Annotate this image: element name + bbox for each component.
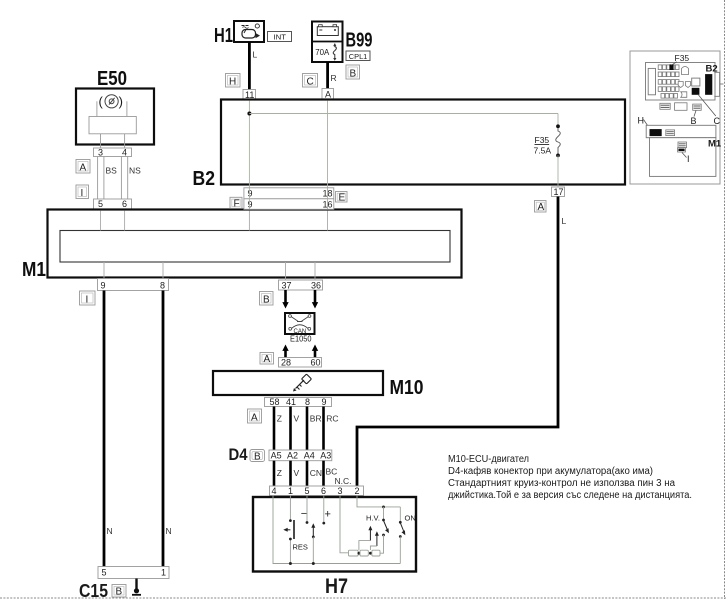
svg-text:A: A (538, 202, 545, 213)
svg-text:A: A (325, 90, 331, 100)
svg-text:6: 6 (321, 486, 326, 496)
body computer M1 box (48, 210, 462, 278)
inset F35 label (671, 53, 689, 65)
inset M1 label (708, 139, 722, 150)
svg-text:Стандартният круиз-контрол не: Стандартният круиз-контрол не използва п… (448, 478, 675, 489)
svg-text:V: V (294, 468, 300, 478)
H7 set plus contact from pin 6 (322, 496, 331, 525)
svg-text:RES: RES (293, 543, 308, 552)
svg-text:3: 3 (338, 486, 343, 496)
connector letter box I (M1) (80, 291, 96, 306)
svg-text:B: B (691, 116, 697, 126)
svg-text:8: 8 (160, 281, 165, 291)
B99 fuse 70A (315, 43, 336, 61)
svg-text:B2: B2 (193, 168, 216, 190)
cruise control lamp H1 body (234, 21, 264, 42)
svg-text:5: 5 (102, 568, 107, 578)
inset label C (699, 95, 721, 126)
wire B2 pin18 to M1 pin16 (327, 188, 329, 210)
engine ECU M10 box (213, 371, 383, 395)
svg-text:D4: D4 (229, 445, 248, 464)
cruise control switch H7 box (253, 497, 416, 572)
svg-text:BC: BC (326, 467, 338, 477)
svg-text:F: F (234, 198, 240, 209)
svg-text:C: C (307, 77, 314, 88)
svg-text:N: N (107, 526, 113, 536)
svg-text:5: 5 (305, 486, 310, 496)
fuse F35 7.5A (534, 124, 561, 157)
svg-text:B2: B2 (706, 64, 718, 75)
wire CN D4 to H7 pin5 (307, 461, 322, 486)
inset fuse panel left module (648, 68, 655, 94)
svg-text:RC: RC (326, 414, 338, 424)
svg-text:L: L (562, 216, 567, 226)
H7 internal left rail from pin 4 (273, 496, 400, 564)
instrument cluster B2 label (193, 168, 216, 190)
battery B99 body (312, 22, 343, 63)
wire V M10 pin41 to D4 A2 (291, 407, 300, 451)
B99 battery icon (317, 25, 338, 36)
H7 RES switch from pin 1 (283, 496, 308, 566)
svg-text:CN: CN (310, 468, 322, 478)
svg-text:A: A (251, 413, 258, 424)
M10 key icon (293, 374, 311, 391)
N.C. label pin 3 (335, 476, 352, 486)
B2 pin A (322, 89, 334, 100)
inset label I (682, 153, 690, 165)
connector letter box F (230, 197, 242, 209)
connector D4 label (229, 445, 248, 464)
connector letter box H (226, 74, 241, 88)
svg-text:E: E (339, 192, 346, 203)
B2 internal wire fuse to pin 17 (557, 155, 559, 187)
B2 bottom pin row pins 9 18 (244, 188, 334, 199)
B2 internal wire from pin A (327, 101, 329, 188)
svg-text:R: R (331, 73, 337, 83)
cruise control switch H7 label (325, 575, 348, 598)
svg-text:4: 4 (272, 486, 277, 496)
svg-text:1: 1 (288, 486, 293, 496)
svg-text:B99: B99 (346, 30, 373, 52)
CAN wire arrow to M10 pin 60 (312, 345, 318, 359)
inset connector B2 black box (705, 74, 712, 95)
wire Z D4 to H7 pin4 (274, 461, 282, 486)
inset fuse grid (658, 65, 679, 98)
svg-text:A5: A5 (271, 451, 282, 461)
wire N from M1 pin 9 to C15 pin 5 (104, 291, 113, 567)
svg-text:41: 41 (286, 397, 296, 407)
svg-text:9: 9 (248, 200, 253, 210)
svg-text:A4: A4 (304, 451, 315, 461)
svg-text:M1: M1 (22, 259, 46, 281)
connector letter box B (B99) (346, 65, 360, 80)
svg-text:1: 1 (161, 568, 166, 578)
clutch switch E50 label (97, 68, 127, 90)
M10 top pin row pins 28 60 (279, 358, 322, 368)
svg-text:B: B (350, 69, 357, 80)
inset fuse F35 highlighted (669, 64, 673, 70)
M1 pin row pins 5 6 (94, 199, 132, 209)
inset lower connectors row (660, 103, 701, 111)
svg-text:L: L (253, 50, 258, 60)
svg-text:BR: BR (310, 414, 322, 424)
page border bottom edge (0, 597, 726, 599)
CPL1 function box (346, 51, 370, 61)
cruise control lamp H1 label (214, 25, 233, 47)
svg-text:B: B (116, 587, 123, 598)
svg-text:N: N (166, 526, 172, 536)
svg-text:A: A (80, 163, 87, 174)
E50 pin row pins 3 4 (94, 147, 132, 157)
svg-text:C: C (714, 116, 721, 126)
wire Z M10 pin58 to D4 A5 (274, 407, 282, 451)
connector letter box A (pin17) (535, 201, 547, 213)
wire R from B99 to B2 pin A (328, 62, 337, 89)
svg-text:I: I (81, 188, 84, 199)
inset I connector icon (678, 142, 687, 152)
B2 internal feed wire to F35 (249, 114, 558, 127)
connector letter box B (M1 CAN) (260, 292, 274, 306)
connector letter box B (C15) (112, 585, 126, 598)
svg-text:17: 17 (554, 187, 564, 197)
svg-text:7.5A: 7.5A (534, 146, 552, 156)
M1 top pin row pins 9 16 (244, 199, 334, 210)
svg-text:C15: C15 (79, 581, 108, 600)
wire L from B2 pin 17 to H7 pin 2 (357, 197, 567, 487)
page border right edge (724, 0, 726, 599)
svg-text:ON: ON (405, 514, 416, 523)
svg-text:I: I (687, 154, 690, 164)
ground connector C15 pin row pins 5 1 (98, 567, 169, 579)
connector letter box A (E50) (76, 160, 90, 174)
wire BR M10 pin8 to D4 A4 (307, 407, 322, 451)
M1 bottom pin row pins 9 8 (98, 279, 169, 291)
svg-text:E1050: E1050 (290, 334, 312, 344)
svg-text:9: 9 (248, 189, 253, 199)
wire NS E50 pin4 to M1 pin6 (121, 157, 141, 200)
wire B2 pin9 to M1 pin9 (248, 188, 250, 210)
svg-text:M10: M10 (390, 377, 424, 399)
svg-text:70A: 70A (315, 48, 330, 57)
svg-text:37: 37 (282, 281, 292, 291)
wire BS E50 pin3 to M1 pin5 (98, 157, 118, 200)
inset label B (691, 111, 697, 127)
svg-text:N.C.: N.C. (335, 476, 352, 486)
inset connector white box (692, 78, 700, 86)
svg-text:11: 11 (245, 90, 254, 100)
svg-text:36: 36 (311, 281, 321, 291)
svg-text:+: + (325, 509, 331, 521)
H7 top pin row pins 4 1 5 6 3 2 (270, 486, 364, 496)
B2 internal wire from pin 11 (248, 101, 250, 188)
svg-text:Z: Z (277, 414, 282, 424)
inset B2 bracket (714, 72, 723, 96)
svg-text:4: 4 (122, 147, 127, 157)
connector letter box A (M10 CAN) (260, 353, 274, 366)
CAN wire arrow from M1 pin 36 (312, 290, 318, 309)
battery B99 label (346, 30, 373, 52)
svg-text:BS: BS (106, 166, 118, 176)
connector letter box A (M10 pins) (248, 409, 262, 424)
svg-text:3: 3 (98, 147, 103, 157)
connector letter box E (336, 192, 348, 204)
svg-text:H: H (638, 116, 645, 126)
H7 HV lever arrow 1 (359, 526, 373, 550)
svg-text:F35: F35 (535, 135, 550, 145)
inset M1 body (650, 138, 716, 177)
svg-text:6: 6 (122, 199, 127, 209)
inset M1 top strip (646, 125, 716, 137)
svg-text:джийстика.Той е за версия със: джийстика.Той е за версия със следене на… (448, 490, 692, 501)
clutch switch E50 body (76, 89, 154, 145)
svg-text:H.V.: H.V. (366, 514, 380, 523)
M1 bottom pin row pins 37 36 (279, 280, 323, 291)
M10 bottom pin row pins 58 41 8 9 (265, 397, 332, 407)
H1 icon (242, 24, 261, 38)
E50 icon (99, 94, 123, 109)
svg-text:B: B (254, 452, 261, 463)
B2 pin 11 (243, 90, 256, 100)
svg-text:E50: E50 (97, 68, 127, 90)
CAN wire arrow from M1 pin 37 (282, 290, 288, 309)
H7 wire from pin 2 top rail (357, 496, 400, 509)
M1 internal stubs (101, 211, 328, 281)
svg-text:60: 60 (311, 358, 321, 368)
connector letter box C (B99) (303, 74, 318, 88)
inset label H (638, 116, 652, 131)
inset B2 label (706, 64, 718, 75)
svg-text:М10-ECU-двигател: М10-ECU-двигател (448, 454, 529, 465)
H7 resistor 1 (349, 550, 359, 556)
wire N from M1 pin 8 to C15 pin 1 (163, 291, 172, 567)
B2 pin 17 (552, 187, 565, 197)
svg-text:I: I (86, 295, 89, 306)
svg-text:V: V (294, 414, 300, 424)
connector letter box B (D4) (250, 450, 265, 463)
H7 set lever switch (311, 523, 315, 565)
inset relay shapes (678, 67, 690, 98)
inset connector C black box (692, 88, 700, 95)
svg-text:8: 8 (305, 397, 310, 407)
junction node in B2 (247, 112, 251, 116)
H7 resistor 3 (369, 550, 380, 556)
wire RC M10 pin9 to D4 A3 (324, 407, 339, 451)
svg-text:H: H (229, 77, 236, 88)
ground connector C15 label (79, 581, 108, 600)
inset fuse panel outline (646, 63, 716, 101)
wire V D4 to H7 pin1 (291, 461, 300, 486)
H7 HV lever arrow 2 (370, 531, 379, 550)
svg-text:INT: INT (274, 32, 287, 41)
svg-text:9: 9 (101, 281, 106, 291)
H7 ON switch (399, 507, 416, 564)
svg-text:B: B (263, 295, 270, 306)
svg-text:5: 5 (98, 199, 103, 209)
H7 resistor 2 (358, 550, 369, 556)
svg-text:A: A (264, 354, 271, 365)
E1050 label (290, 334, 312, 344)
svg-text:A3: A3 (320, 451, 331, 461)
svg-text:F35: F35 (675, 53, 690, 63)
INT function box (268, 32, 292, 42)
svg-text:): ) (119, 94, 123, 109)
svg-text:2: 2 (355, 486, 360, 496)
body computer M1 label (22, 259, 46, 281)
CAN wire arrow to M10 pin 28 (282, 345, 288, 359)
E50 internal contact block (89, 101, 136, 148)
svg-text:NS: NS (129, 166, 141, 176)
location inset box (630, 51, 720, 184)
D4 pin row pins A5 A2 A4 A3 (269, 450, 332, 461)
M1 inner block (60, 231, 450, 263)
svg-text:M1: M1 (708, 139, 722, 150)
connector letter box I (E50) (76, 185, 89, 199)
svg-text:9: 9 (322, 397, 327, 407)
svg-text:28: 28 (281, 358, 291, 368)
svg-text:CPL1: CPL1 (349, 52, 368, 61)
svg-text:Z: Z (277, 468, 282, 478)
H7 HV switch (366, 507, 389, 553)
instrument cluster B2 box (221, 100, 625, 185)
wire L from H1 to B2 pin 11 (249, 42, 257, 90)
H7 wire from pin 3 to resistors (340, 496, 349, 553)
svg-text:58: 58 (270, 397, 280, 407)
svg-text:−: − (301, 508, 307, 520)
svg-text:D4-кафяв конектор при акумулат: D4-кафяв конектор при акумулатора(ако им… (448, 465, 653, 477)
svg-text:A2: A2 (287, 451, 298, 461)
svg-text:H7: H7 (325, 575, 348, 598)
ground symbol (132, 579, 141, 595)
H7 set minus contact from pin 5 (301, 496, 309, 524)
svg-text:(: ( (99, 94, 104, 109)
note text block (448, 454, 692, 501)
engine ECU M10 label (390, 377, 424, 399)
wire BC D4 to H7 pin6 (324, 461, 338, 486)
CAN node E1050 (285, 313, 315, 335)
svg-text:H1: H1 (214, 25, 233, 47)
